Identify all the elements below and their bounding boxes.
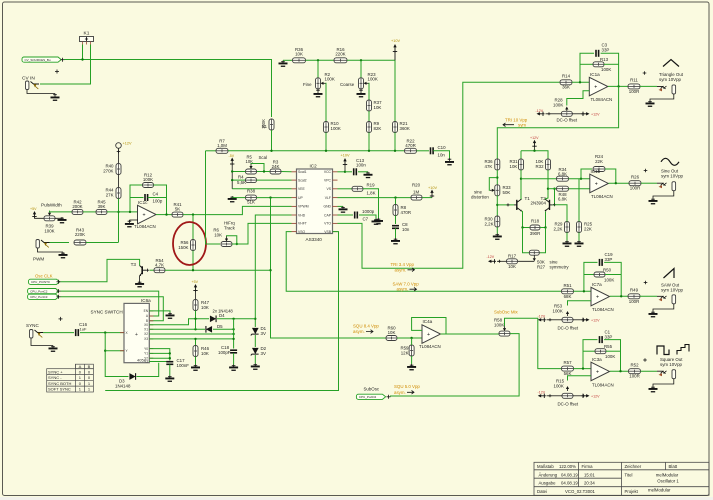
ground C10	[445, 158, 454, 165]
svg-text:+: +	[135, 332, 138, 338]
potentiometer R15 DC offset	[562, 393, 573, 398]
wire R59-gnd	[411, 356, 413, 364]
wire R37-R9	[368, 111, 370, 122]
svg-text:T3: T3	[131, 262, 137, 267]
wire R46 stub	[195, 339, 197, 346]
ground IC2	[339, 206, 348, 212]
wire T2 base	[553, 189, 555, 205]
svg-text:TL084ACN: TL084ACN	[134, 224, 156, 229]
wire R26-jack	[641, 182, 657, 184]
svg-text:TL084ACN: TL084ACN	[592, 307, 614, 312]
svg-text:122.00%: 122.00%	[559, 464, 576, 469]
svg-text:6,8K: 6,8K	[558, 197, 567, 202]
wire R39 right gnd	[55, 217, 62, 218]
wire R39 wiper up	[50, 211, 73, 212]
junction main R21	[394, 150, 396, 152]
ground Fine pot	[314, 89, 323, 97]
junction main R1	[270, 150, 272, 152]
capacitor C10	[431, 147, 434, 154]
junction VCC	[344, 171, 346, 173]
svg-text:Änderung: Änderung	[539, 472, 558, 477]
wire IC3a plus	[568, 376, 592, 381]
supply +12V R53	[582, 318, 590, 322]
wire -5V rail	[231, 166, 233, 189]
supply -12V R28	[537, 112, 545, 116]
junction Y tap	[104, 350, 106, 352]
svg-text:SQU 5.0 Vpp: SQU 5.0 Vpp	[394, 384, 420, 389]
pot R28 wiper	[565, 107, 568, 110]
svg-text:TL084ACN: TL084ACN	[419, 344, 441, 349]
svg-text:4,7K: 4,7K	[155, 263, 164, 268]
svg-text:50K: 50K	[503, 190, 511, 195]
junction R59	[410, 337, 412, 339]
wire C8-gnd	[395, 228, 397, 238]
svg-text:R49: R49	[630, 288, 639, 293]
wire C18 column	[233, 319, 235, 349]
wire R56 bottom	[192, 251, 194, 271]
resistor R44	[116, 188, 121, 199]
wire sync soft link	[234, 318, 256, 320]
svg-text:IC3a: IC3a	[592, 357, 602, 362]
svg-text:GND: GND	[323, 205, 331, 209]
svg-text:Coarse: Coarse	[340, 82, 355, 87]
resistor R21	[393, 122, 398, 133]
svg-text:04.08.19: 04.08.19	[561, 481, 578, 486]
svg-text:IC4a: IC4a	[423, 319, 433, 324]
op-amp IC1b	[590, 174, 609, 193]
wire main line 2	[228, 150, 404, 152]
wire VSB sub route	[105, 232, 338, 391]
wire R6-VHFT	[232, 223, 292, 244]
wire R53 right	[573, 319, 582, 321]
svg-text:100R: 100R	[629, 299, 640, 304]
supply +10V R20	[430, 190, 434, 198]
svg-text:1M: 1M	[413, 190, 419, 195]
svg-text:10K: 10K	[374, 105, 382, 110]
wire R51-IC7a	[574, 290, 592, 292]
ground C13	[364, 172, 373, 178]
svg-text:-12V: -12V	[536, 109, 544, 113]
svg-text:C10: C10	[438, 145, 447, 150]
svg-text:20:34: 20:34	[584, 481, 595, 486]
wire C3-out	[601, 53, 619, 86]
junction zener-sync	[254, 318, 256, 320]
resistor R19	[352, 186, 363, 191]
svg-text:100R: 100R	[630, 186, 641, 191]
svg-text:10n: 10n	[438, 153, 446, 158]
resistor R36	[293, 58, 306, 63]
wire -5V to R4	[232, 179, 245, 181]
resistor R12	[143, 183, 154, 188]
net label CPU_PCINT0	[29, 279, 60, 284]
svg-text:100p: 100p	[153, 199, 163, 204]
svg-text:Ausgabe: Ausgabe	[539, 481, 557, 486]
wire fine wiper	[325, 83, 328, 122]
svg-text:Scal1: Scal1	[298, 170, 307, 174]
junction X3-R46	[194, 338, 196, 340]
svg-text:10K: 10K	[388, 330, 396, 335]
svg-text:SYNC SWITCH: SYNC SWITCH	[91, 310, 123, 315]
wire X1	[149, 328, 205, 330]
junction R5 loop	[263, 170, 265, 172]
svg-text:470R: 470R	[405, 143, 416, 148]
wire R13-out	[604, 63, 619, 65]
ground T3	[135, 281, 144, 287]
resistor R52	[629, 369, 641, 374]
svg-text:X1: X1	[144, 328, 148, 332]
op-amp IC4a	[422, 325, 441, 344]
wire R16-+10V	[347, 60, 395, 122]
svg-text:sym 10Vpp: sym 10Vpp	[660, 362, 683, 367]
wire R10-main	[325, 133, 327, 151]
junction +12V rail	[533, 150, 535, 152]
svg-text:Y1: Y1	[144, 352, 148, 356]
svg-text:82K: 82K	[374, 126, 382, 131]
wire VCC	[338, 171, 346, 173]
junction R56-node	[192, 269, 194, 271]
wire T1 emitter	[522, 211, 530, 228]
svg-text:AS3340: AS3340	[306, 237, 323, 242]
svg-text:3V: 3V	[261, 351, 266, 356]
ground IC1c plus	[125, 220, 134, 227]
junction X2-C18	[232, 333, 234, 335]
svg-text:10K: 10K	[510, 164, 518, 169]
svg-text:IC7a: IC7a	[592, 282, 602, 287]
svg-text:100K: 100K	[605, 354, 615, 359]
svg-text:Fine: Fine	[303, 82, 312, 87]
junction cross R28l	[548, 112, 551, 115]
wire IC1a out	[608, 85, 628, 87]
svg-text:220K: 220K	[75, 232, 85, 237]
highlight ellipse	[173, 222, 206, 265]
wire K1 pin3 down to jack	[40, 45, 91, 85]
svg-text:CV_SOURCES_Bu: CV_SOURCES_Bu	[25, 58, 51, 62]
wire T1 base	[497, 204, 514, 206]
wire A control	[61, 291, 159, 316]
ground C18	[229, 365, 238, 371]
svg-text:360K: 360K	[400, 126, 410, 131]
svg-text:VHFT: VHFT	[298, 222, 307, 226]
wire R14-IC1a	[572, 81, 589, 83]
wire R19-gnd	[363, 189, 379, 218]
wire fb R13	[580, 63, 593, 65]
supply +10V VCC	[343, 158, 347, 166]
wire main summing line	[206, 150, 217, 152]
ground saw jack	[649, 311, 658, 317]
wire R50-out	[605, 274, 621, 276]
svg-text:100K: 100K	[368, 77, 378, 82]
junction cross sync	[59, 317, 63, 321]
junction cross portc3	[57, 295, 61, 299]
svg-text:VPWM: VPWM	[298, 205, 309, 209]
wire R52-jack	[641, 370, 658, 372]
resistor R8	[393, 205, 398, 216]
svg-text:X0: X0	[144, 323, 148, 327]
resistor R48	[557, 186, 569, 191]
wire R12-out	[154, 185, 167, 215]
ground R30	[493, 234, 502, 240]
junction e1	[521, 226, 523, 228]
svg-text:33P: 33P	[605, 334, 613, 339]
svg-text:10n: 10n	[402, 227, 410, 232]
svg-text:CPU_PortC3: CPU_PortC3	[30, 295, 48, 299]
svg-text:+: +	[596, 295, 599, 301]
wire T2 collector	[545, 170, 548, 199]
svg-text:R13: R13	[600, 57, 609, 62]
wire base stub	[150, 269, 155, 271]
svg-text:-5V: -5V	[229, 154, 235, 158]
wire sine jack gnd	[653, 191, 674, 198]
junction out b	[615, 182, 617, 184]
waveform sine icon	[661, 158, 679, 165]
wire D2-gnd	[254, 355, 256, 364]
junction out a	[617, 85, 619, 87]
wire tri dist	[497, 86, 618, 159]
ground R19	[374, 218, 383, 224]
ground Coarse pot	[357, 89, 366, 97]
wire R15 left	[547, 395, 563, 397]
svg-text:DC-O ffset: DC-O ffset	[558, 402, 579, 407]
svg-text:SQU 8.4 Vpp: SQU 8.4 Vpp	[353, 324, 379, 329]
transistor T2	[545, 199, 553, 211]
resistor R55	[595, 349, 606, 354]
wire Y0-Y3 common	[149, 349, 170, 361]
svg-text:10K: 10K	[295, 52, 303, 57]
junction net bus	[61, 58, 65, 62]
svg-text:+10V: +10V	[391, 39, 400, 43]
wire R21-main	[394, 133, 396, 151]
svg-text:100K: 100K	[553, 309, 563, 314]
svg-text:sym 10Vpp: sym 10Vpp	[661, 174, 684, 179]
svg-text:Y0: Y0	[144, 347, 148, 351]
junction cross portc2	[57, 289, 61, 293]
svg-text:IC1b: IC1b	[591, 169, 601, 174]
svg-text:-12V: -12V	[538, 390, 546, 394]
jack SYNC	[30, 330, 44, 339]
svg-text:SYNC +: SYNC +	[48, 369, 63, 374]
junction cross R53l	[549, 318, 552, 321]
pot R53 wiper	[566, 311, 569, 314]
wire fb R24	[581, 169, 592, 179]
svg-text:-12V: -12V	[538, 314, 546, 318]
wire pcint-T3	[61, 259, 140, 281]
svg-text:VTO: VTO	[324, 222, 331, 226]
potentiometer R33 sine distortion	[495, 185, 500, 196]
wire R49-jack	[640, 295, 657, 297]
wire R56 top	[192, 215, 194, 240]
op-amp IC1a	[589, 77, 608, 96]
supply +12V R28	[582, 112, 590, 116]
wire D5-C18	[213, 328, 234, 330]
capacitor C4	[145, 194, 148, 201]
wire R43-R44col	[86, 242, 119, 244]
wire R27 left	[523, 228, 530, 253]
wire R48 line	[548, 188, 556, 190]
junction fb in	[579, 81, 581, 83]
wire IC1b out	[609, 182, 630, 184]
junction R44 node	[117, 211, 119, 213]
wire IC4a out	[441, 333, 500, 335]
resistor R30	[495, 216, 500, 227]
supply +10V top	[393, 44, 397, 53]
svg-text:100K: 100K	[601, 67, 611, 72]
svg-text:2x 1N4148: 2x 1N4148	[213, 309, 234, 314]
junction IC1c out	[165, 213, 167, 215]
junction R47-D4	[194, 318, 196, 320]
svg-text:+: +	[595, 181, 598, 187]
svg-text:68K: 68K	[564, 294, 572, 299]
svg-text:R26: R26	[631, 174, 640, 179]
resistor R18	[530, 225, 540, 230]
svg-text:+5V: +5V	[192, 280, 199, 284]
svg-text:Scal: Scal	[259, 155, 268, 160]
resistor R43	[74, 240, 86, 245]
wire R18-T2	[540, 212, 546, 228]
resistor R3	[270, 169, 281, 174]
svg-text:47K: 47K	[485, 164, 493, 169]
svg-text:IC2: IC2	[310, 164, 318, 169]
wire T3 emitter gnd	[139, 276, 141, 281]
svg-text:100K: 100K	[604, 277, 614, 282]
wire CV bus	[64, 60, 272, 118]
pot R27 wiper down	[533, 258, 536, 261]
svg-text:1,0M: 1,0M	[217, 143, 227, 148]
capacitor C16	[76, 329, 79, 336]
waveform saw icon	[664, 269, 675, 279]
svg-text:SYNC -: SYNC -	[48, 375, 62, 380]
potentiometer R2 Fine	[316, 78, 321, 89]
wire fb R50	[584, 274, 594, 276]
wire VTO triangle route	[338, 82, 560, 268]
junction cross R17	[498, 260, 501, 263]
wire IC1a plus	[567, 91, 590, 106]
junction R41 node	[192, 213, 194, 215]
ground PWM jack	[59, 252, 68, 258]
wire VSO saw route	[286, 232, 561, 292]
svg-text:+12V: +12V	[591, 395, 600, 399]
wire GND pin	[338, 205, 344, 207]
svg-text:CPU_PortD4: CPU_PortD4	[359, 395, 377, 399]
resistor R13	[593, 62, 604, 67]
wire VLF-R20	[338, 197, 412, 199]
svg-text:melModular: melModular	[648, 488, 671, 493]
junction e2	[544, 226, 546, 228]
wire R8-C8	[395, 216, 397, 225]
wire SYNC jack gnd	[31, 339, 53, 346]
wire R5-R3	[257, 171, 271, 173]
junction fine top	[317, 59, 319, 61]
svg-text:SubOsc: SubOsc	[364, 387, 380, 392]
svg-text:100R: 100R	[629, 89, 640, 94]
junction IC1c fb	[129, 211, 131, 213]
jack Triangle Out	[657, 85, 676, 94]
wire R6 wiper loop	[227, 236, 237, 244]
wire R35-R33	[496, 170, 498, 186]
svg-text:VHD: VHD	[298, 213, 306, 217]
svg-text:100pF: 100pF	[218, 350, 231, 355]
wire R40-R44	[118, 175, 120, 188]
resistor R38	[246, 195, 257, 200]
wire wiper-R17	[518, 260, 535, 262]
resistor R57	[562, 366, 574, 371]
svg-text:100K: 100K	[44, 229, 54, 234]
svg-text:Osc CLK: Osc CLK	[35, 273, 53, 278]
wire K1 pin1 down	[82, 45, 84, 60]
svg-text:100K: 100K	[553, 103, 563, 108]
wire squ jack gnd	[653, 379, 674, 386]
svg-text:10K: 10K	[508, 264, 516, 269]
resistor R16	[334, 58, 347, 63]
potentiometer R58	[499, 331, 510, 336]
svg-text:3V: 3V	[261, 331, 266, 336]
svg-text:33P: 33P	[602, 47, 610, 52]
svg-text:asym.: asym.	[395, 267, 407, 272]
net label CPU_PortC3	[28, 294, 59, 299]
pot R15 wiper	[566, 386, 569, 389]
svg-text:TRI 3.4 Vpp: TRI 3.4 Vpp	[391, 262, 415, 267]
resistor R29	[565, 222, 570, 233]
wire T1 collector	[520, 170, 523, 199]
transistor T1	[514, 199, 522, 211]
ground C8	[391, 238, 400, 244]
svg-text:+10V: +10V	[341, 154, 350, 158]
potentiometer R23 Coarse	[359, 78, 364, 89]
svg-text:R27: R27	[537, 264, 546, 269]
wire B control	[61, 297, 164, 321]
IC U6a 4052 sync switch	[120, 303, 153, 363]
svg-text:VCO_02.T3001: VCO_02.T3001	[565, 489, 595, 494]
wire fb C19	[584, 262, 598, 292]
svg-text:asym.: asym.	[353, 329, 365, 334]
wire IC1c out	[156, 214, 172, 216]
ground squ jack	[649, 386, 658, 392]
svg-text:39K: 39K	[98, 204, 106, 209]
wire X0	[149, 319, 209, 325]
wire IC7a out	[610, 295, 628, 297]
wire R46-gnd	[195, 357, 197, 365]
resistor R34	[557, 176, 569, 181]
connector K1	[80, 37, 94, 45]
wire R17 left	[497, 260, 507, 262]
potentiometer R5 Scal	[246, 169, 257, 174]
junction T1 base	[496, 204, 498, 206]
ground R29	[563, 241, 572, 247]
wire C4-out	[148, 197, 167, 199]
svg-text:22K: 22K	[584, 227, 592, 232]
ground R36 left	[279, 61, 288, 67]
wire PWM jack gnd	[38, 249, 64, 253]
svg-text:R55: R55	[604, 344, 613, 349]
wire R27 right	[539, 228, 546, 253]
wire R33-R30	[496, 195, 498, 216]
capacitor C7	[355, 212, 358, 219]
supply -12V R17	[488, 259, 496, 263]
ground CV IN jack	[51, 94, 60, 101]
svg-text:R11: R11	[630, 78, 638, 83]
wire fine top	[317, 60, 319, 77]
resistor R20	[411, 195, 422, 200]
resistor R40	[116, 164, 121, 175]
resistor R11	[628, 84, 640, 89]
svg-text:DC-O ffset: DC-O ffset	[558, 326, 579, 331]
jack Sine Out	[657, 182, 676, 191]
ground zeners	[251, 364, 260, 370]
ground R39	[58, 217, 67, 223]
svg-text:T1: T1	[525, 196, 531, 201]
waveform stair icon	[677, 345, 689, 355]
ground EN	[166, 313, 175, 319]
svg-text:Datei: Datei	[537, 489, 547, 494]
